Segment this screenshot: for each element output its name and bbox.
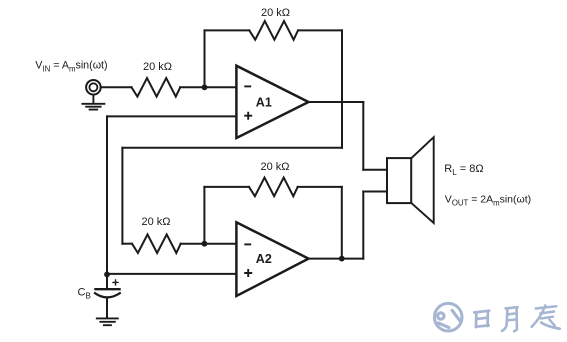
node A1 inverting junction (202, 84, 208, 90)
node bias junction (104, 272, 110, 278)
resistor R2 20k A1 feedback (249, 21, 298, 40)
wire to speaker bottom terminal (363, 191, 387, 193)
svg-text:A2: A2 (256, 252, 272, 266)
CB plus mark (113, 280, 118, 285)
svg-text:20 kΩ: 20 kΩ (261, 161, 290, 173)
node A2 inverting junction (202, 241, 208, 247)
wire A2 output (309, 258, 364, 260)
wire feedback up from junction (204, 30, 206, 87)
speaker RL (387, 158, 411, 203)
svg-text:20 kΩ: 20 kΩ (261, 7, 290, 19)
wire R1 to A1 inverting input (180, 86, 236, 88)
wire A2 noninverting input (107, 273, 236, 275)
op-amp A1 (236, 66, 308, 138)
svg-text:20 kΩ: 20 kΩ (142, 216, 171, 228)
wire R4 to right (298, 186, 342, 188)
wire R3 to A2 inverting input (181, 243, 237, 245)
label A2 minus (244, 243, 251, 245)
svg-text:RL = 8Ω: RL = 8Ω (444, 163, 483, 177)
wire A2 feedback down to output (341, 187, 343, 259)
watermark char YUE (moon) (502, 307, 518, 331)
wire to R4 (204, 186, 249, 188)
wire A1 output down to speaker (362, 102, 364, 170)
wire A2 feedback up (203, 187, 205, 244)
wire left vertical down to A2 input (121, 148, 123, 244)
watermark char RI (sun) (474, 311, 489, 328)
resistor R3 20k A2 input (132, 234, 181, 253)
wire bias vertical down left (106, 116, 108, 274)
wire R2 to right vertical (298, 29, 342, 31)
node VIN source (86, 80, 101, 95)
wire source to R1 (101, 86, 132, 88)
ground (under source) (82, 95, 104, 110)
resistor R1 20k input (132, 78, 181, 97)
capacitor CB (106, 274, 108, 289)
wire to speaker top terminal (363, 169, 387, 171)
watermark logo circle (434, 303, 462, 331)
wire horizontal mid to left (122, 147, 342, 149)
label A1 plus (244, 112, 252, 120)
svg-text:20 kΩ: 20 kΩ (143, 61, 172, 73)
label A2 plus (244, 269, 252, 277)
node A2 output junction (339, 256, 345, 262)
label A1 minus (244, 85, 251, 87)
wire top left to R2 (205, 29, 250, 31)
ground (under CB) (97, 318, 118, 325)
svg-text:VIN = Amsin(ωt): VIN = Amsin(ωt) (35, 60, 107, 74)
svg-text:A1: A1 (256, 95, 272, 109)
wire right vertical down (crosses A1 output line) (341, 30, 343, 147)
svg-text:VOUT = 2Amsin(ωt): VOUT = 2Amsin(ωt) (445, 193, 531, 207)
watermark char CHEN (532, 305, 560, 328)
resistor R4 20k A2 feedback (249, 178, 298, 197)
wire A1 noninverting input (107, 115, 236, 117)
svg-text:CB: CB (78, 287, 91, 301)
wire A2 output up to speaker (362, 192, 364, 259)
wire A1 output (309, 101, 364, 103)
op-amp A2 (236, 222, 308, 296)
wire corner to R3 (122, 243, 132, 245)
